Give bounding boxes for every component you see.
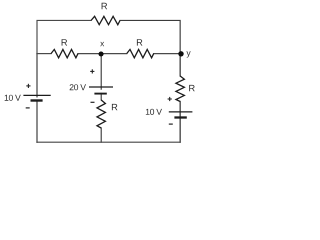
label R_rightV <box>189 85 195 91</box>
label R_row2R <box>137 39 143 45</box>
plus sign right battery <box>168 97 172 101</box>
label R_row2L <box>62 39 68 45</box>
minus sign left battery <box>26 107 30 109</box>
resistor R row2 right <box>127 49 154 57</box>
wire row2 left lead <box>37 53 51 55</box>
label V10R <box>146 109 162 115</box>
plus sign middle battery <box>90 69 94 73</box>
resistor R top <box>91 16 120 24</box>
battery V3 10V right: long plate <box>169 111 193 113</box>
wire node x down to 20V battery <box>100 54 102 90</box>
label R_midV <box>112 104 118 110</box>
node y junction dot <box>178 51 183 56</box>
plus sign left battery <box>26 84 30 88</box>
resistor R right vertical <box>176 76 184 102</box>
label R_top <box>102 3 108 9</box>
minus sign right battery <box>169 123 173 125</box>
resistor R middle vertical <box>97 100 105 128</box>
label V20 <box>70 84 86 90</box>
battery V2 20V middle: short plate <box>94 93 106 95</box>
wire bottom <box>37 141 180 143</box>
wire left vertical lower <box>36 101 38 142</box>
label y_node <box>186 51 190 57</box>
wire top left segment <box>37 20 91 53</box>
wire row2 right lead <box>154 53 180 55</box>
wire left vertical upper <box>36 54 38 97</box>
wire right resistor through 10V battery to bottom <box>179 102 181 143</box>
label x_node <box>100 42 104 46</box>
wire node y down to right resistor <box>179 54 181 76</box>
wire top right segment <box>120 20 180 53</box>
wire 20V battery to middle resistor <box>100 93 102 100</box>
wire middle resistor to bottom <box>100 128 102 142</box>
label V10L <box>5 95 21 101</box>
wire row2 middle segment <box>78 53 127 55</box>
battery V2 20V middle: long plate <box>89 86 113 88</box>
battery V3 10V right: short plate <box>174 116 186 118</box>
minus sign middle battery <box>91 101 95 103</box>
resistor R row2 left <box>51 49 78 57</box>
battery V1 10V left: short plate <box>31 99 43 101</box>
node x junction dot <box>99 51 104 56</box>
battery V1 10V left: long plate <box>23 94 50 96</box>
